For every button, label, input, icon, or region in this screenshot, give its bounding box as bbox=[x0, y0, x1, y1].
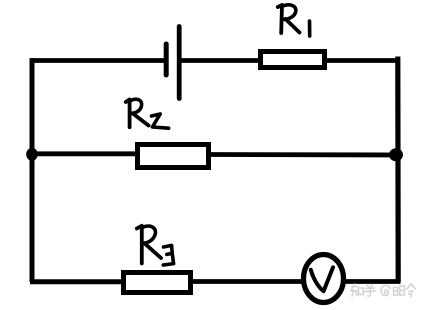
label R3 bbox=[137, 226, 174, 265]
node left junction bbox=[26, 148, 38, 161]
wire left vertical bbox=[30, 58, 35, 282]
wire middle-right segment bbox=[208, 152, 399, 157]
node right junction bbox=[389, 148, 403, 161]
wire middle-left segment bbox=[30, 151, 138, 156]
resistor R1 body bbox=[261, 52, 325, 68]
wire top-left segment bbox=[30, 58, 167, 63]
resistor R2 body bbox=[138, 145, 209, 168]
wire R1 to top-right corner bbox=[325, 58, 400, 63]
label R1 bbox=[278, 5, 310, 36]
wire R3 to voltmeter bbox=[190, 279, 303, 284]
watermark 知乎 @明今 bbox=[351, 284, 416, 297]
resistor R3 body bbox=[124, 273, 191, 293]
label R2 bbox=[126, 99, 169, 128]
wire voltmeter to bottom-right corner bbox=[345, 279, 401, 284]
wire battery to R1 bbox=[181, 58, 260, 63]
voltmeter V bbox=[304, 255, 344, 303]
wire bottom-left segment bbox=[30, 279, 125, 284]
battery bbox=[166, 27, 179, 99]
wire right vertical bbox=[395, 57, 401, 283]
